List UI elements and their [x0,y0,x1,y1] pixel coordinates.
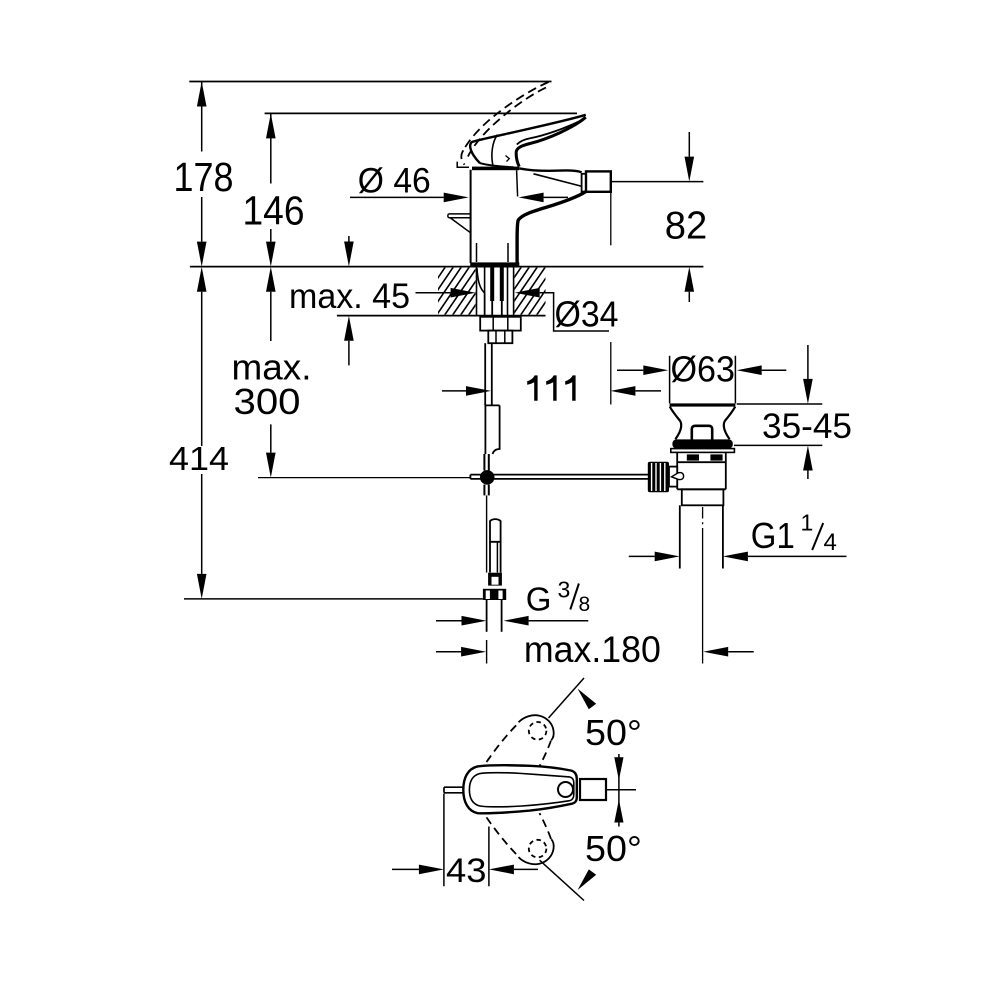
svg-text:35-45: 35-45 [762,407,852,446]
svg-text:max. 45: max. 45 [289,277,410,316]
svg-text:178: 178 [174,154,234,200]
svg-text:414: 414 [169,440,229,477]
svg-text:G: G [526,581,552,618]
svg-text:Ø63: Ø63 [671,349,736,390]
svg-text:300: 300 [234,381,301,422]
svg-text:82: 82 [665,204,708,247]
svg-text:Ø34: Ø34 [555,294,619,335]
svg-text:50°: 50° [585,828,642,869]
svg-text:50°: 50° [585,712,642,753]
svg-text:max.180: max.180 [524,629,661,670]
svg-text:146: 146 [243,188,305,234]
svg-text:43: 43 [446,852,487,890]
svg-text:Ø 46: Ø 46 [358,161,431,200]
svg-text:4: 4 [824,529,837,556]
svg-text:3: 3 [558,577,571,603]
svg-text:1: 1 [801,510,814,536]
svg-text:8: 8 [579,593,591,616]
svg-text:G1: G1 [751,515,795,556]
